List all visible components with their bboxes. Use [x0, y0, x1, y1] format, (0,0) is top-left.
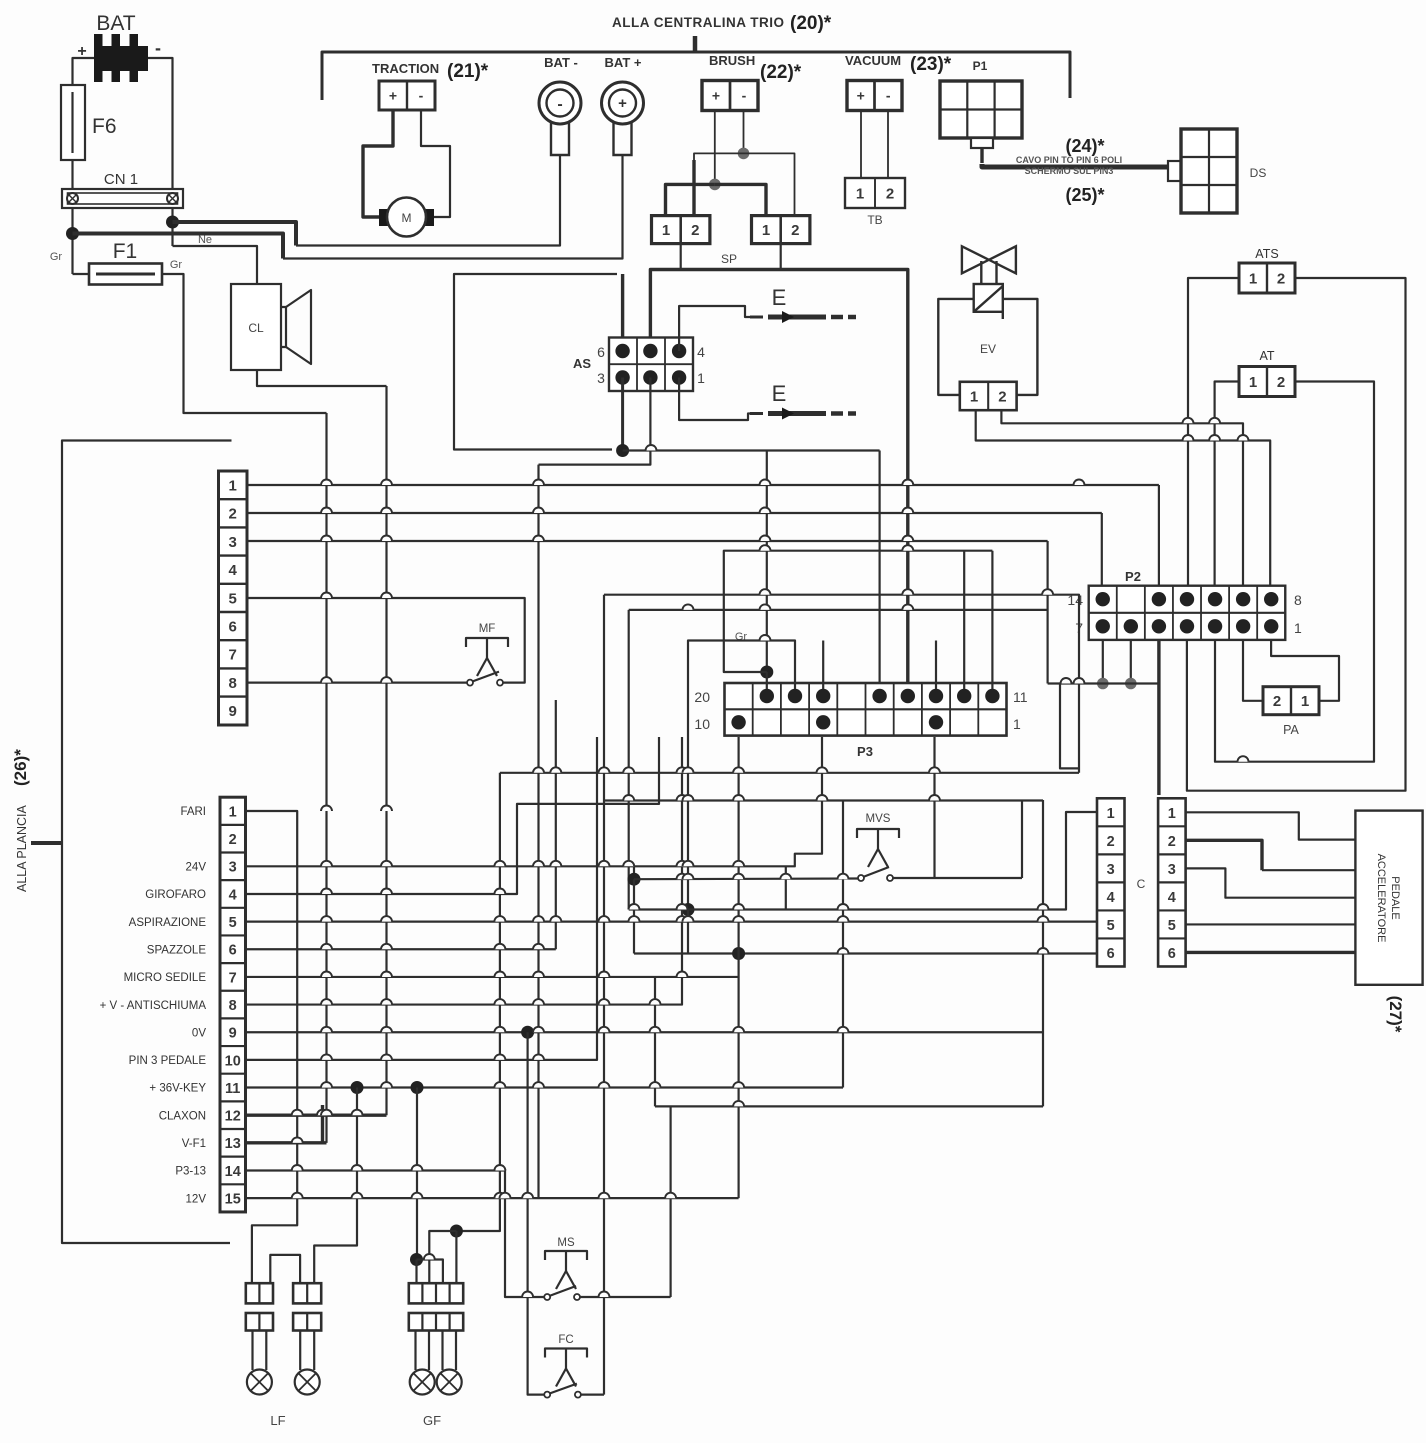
svg-text:(27)*: (27)* [1386, 996, 1405, 1033]
switch MF lever [472, 672, 499, 682]
svg-text:1: 1 [762, 222, 770, 239]
connector P3 [725, 683, 1007, 736]
connector AS pins [615, 344, 629, 358]
svg-text:1: 1 [229, 804, 237, 820]
wire X628 vertical [628, 610, 630, 910]
wire CN9 pin8 to MF [247, 681, 467, 683]
svg-text:8: 8 [229, 675, 237, 692]
wire X1043 vertical [1042, 800, 1044, 1106]
svg-text:4: 4 [1107, 890, 1115, 906]
connector P2 [1089, 586, 1286, 640]
switch FC lever [549, 1384, 577, 1394]
wire PIN3 PEDALE row10 [246, 737, 598, 1060]
node C6 junction [732, 947, 745, 960]
connector P2 top pins [1096, 592, 1110, 606]
wire CN9 pin2 to P2 [247, 512, 1102, 514]
wire BRUSH plus to SP left 1 [666, 184, 715, 215]
connector LF right upper [293, 1283, 321, 1303]
wire P2 pin2 to PA [1243, 640, 1263, 701]
node X688 junction [682, 903, 695, 916]
svg-text:1: 1 [1168, 806, 1176, 822]
svg-text:CN 1: CN 1 [104, 171, 138, 188]
svg-text:Gr: Gr [50, 251, 63, 263]
lamp GF right [441, 1331, 443, 1371]
switch MS lever [549, 1286, 576, 1296]
connector P1 tab [971, 138, 993, 148]
wire CLAXON to V-F1 link [321, 1105, 324, 1143]
wire 12V row15 [246, 1197, 739, 1199]
wire CN1 right down [171, 208, 173, 246]
svg-text:SP: SP [721, 252, 737, 266]
wire Y800 line to MS feeder [604, 799, 1043, 801]
battery BAT symbol [94, 34, 148, 82]
connector EV pins [960, 382, 1017, 410]
svg-text:1: 1 [697, 370, 705, 386]
svg-text:ALLA PLANCIA: ALLA PLANCIA [15, 804, 29, 892]
svg-text:2: 2 [1273, 693, 1281, 710]
wire battery minus to CN1 [148, 58, 173, 189]
svg-text:BAT -: BAT - [544, 55, 578, 70]
svg-text:1: 1 [1249, 374, 1257, 391]
connector PA [1263, 687, 1319, 715]
wire GF branch to cell3 [417, 1260, 443, 1284]
node GF junction A [410, 1253, 423, 1266]
wire X688 to Y953 line [687, 910, 689, 954]
svg-text:F6: F6 [92, 115, 117, 138]
switch FC contacts [544, 1392, 550, 1398]
svg-text:VACUUM: VACUUM [845, 53, 901, 68]
connector AT [1239, 367, 1295, 397]
wire CN9 pin3 to P2 area [247, 540, 1048, 542]
wire bus X2 vertical from CL to CLAXON row [385, 386, 387, 1115]
wire 24V row3 [246, 737, 823, 866]
svg-text:7: 7 [229, 647, 237, 664]
connector SP left [652, 216, 710, 244]
svg-text:SPAZZOLE: SPAZZOLE [147, 944, 207, 956]
wire MS link drop [669, 1106, 671, 1297]
terminal BAT- ring [539, 82, 581, 124]
node 0V junction [521, 1026, 534, 1039]
wire MICRO SEDILE branch to MS [654, 977, 656, 1106]
node GF junction B [450, 1225, 463, 1238]
box SP harness outline [454, 274, 617, 450]
wire BRUSH plus to SP right 1 [715, 184, 766, 215]
svg-text:(21)*: (21)* [447, 61, 489, 82]
svg-text:(20)*: (20)* [790, 13, 832, 34]
wire FC right link [581, 1393, 604, 1395]
wire gray node line [1048, 682, 1159, 684]
wire EV pin1 to P2 [976, 410, 1270, 592]
svg-text:CL: CL [248, 321, 264, 335]
cable P1 to DS [980, 148, 983, 163]
wire node to P3 pins 19 and 15 [623, 449, 880, 451]
svg-text:2: 2 [229, 832, 237, 848]
svg-text:ASPIRAZIONE: ASPIRAZIONE [129, 917, 207, 929]
svg-text:5: 5 [229, 590, 237, 607]
wire 0V row9 [246, 1031, 1044, 1033]
connector C left [1097, 798, 1125, 966]
wire X1047 down to gray node line [1046, 541, 1048, 684]
lamp LF left [251, 1331, 253, 1371]
wire LF bridge [270, 1255, 300, 1283]
wire C right pin1 to pedal [1186, 812, 1356, 839]
wire F6 to CN1 [71, 160, 73, 189]
fuse F6 [61, 85, 85, 160]
wire P3-13 row14 [246, 1169, 506, 1171]
svg-text:ALLA CENTRALINA TRIO: ALLA CENTRALINA TRIO [612, 15, 784, 30]
wire ANTISCHIUMA row8 [246, 737, 683, 1005]
node gray P2 pin6 [1125, 678, 1137, 690]
wire P3 pin13 to MVS [933, 737, 935, 878]
svg-text:24V: 24V [186, 862, 207, 874]
node BRUSH minus junction [738, 148, 750, 160]
svg-text:0V: 0V [192, 1027, 206, 1039]
svg-text:11: 11 [1013, 689, 1028, 705]
node row11 junction LF [351, 1081, 364, 1094]
svg-text:FARI: FARI [180, 806, 206, 818]
connector AS [609, 338, 693, 392]
wire MICRO SEDILE row7 [246, 976, 739, 978]
svg-text:GIROFARO: GIROFARO [145, 889, 206, 901]
frame ALLA PLANCIA box [62, 441, 232, 1244]
wire MVS feed line [634, 877, 858, 880]
connector CN1 pin left [67, 193, 78, 204]
svg-text:12: 12 [225, 1109, 241, 1125]
wire BRUSH minus down [743, 111, 745, 154]
svg-text:(22)*: (22)* [760, 62, 802, 83]
svg-text:F1: F1 [113, 240, 138, 263]
svg-text:6: 6 [1168, 946, 1176, 962]
wire CN9 pin1 to P2 [247, 484, 1159, 486]
wire C right pin6 to pedal [1186, 951, 1356, 954]
svg-text:ACCELERATORE: ACCELERATORE [1375, 854, 1387, 943]
claxon CL horn [281, 307, 286, 347]
wire Gr node to P3 pin19 [766, 672, 768, 689]
svg-text:Gr: Gr [170, 259, 183, 271]
wire P3 pin13 stub [935, 641, 937, 690]
terminal BAT- stem [551, 121, 569, 155]
svg-text:DS: DS [1250, 166, 1267, 180]
wire C pin6 line [634, 952, 1097, 954]
svg-text:2: 2 [886, 185, 894, 202]
connector CN1 pin right [167, 193, 178, 204]
svg-text:+: + [618, 95, 627, 112]
wire P2 pin7 down [1102, 640, 1104, 684]
svg-text:(26)*: (26)* [11, 749, 30, 786]
wire C right pin2 to pedal [1186, 840, 1262, 870]
wire MS right link [580, 1296, 671, 1298]
svg-text:BRUSH: BRUSH [709, 53, 755, 68]
wire BRUSH minus to SP right 2 [744, 153, 795, 215]
wire battery-plus bus to BAT+ terminal [73, 234, 284, 259]
switch MVS lever [863, 867, 889, 877]
svg-text:PIN 3 PEDALE: PIN 3 PEDALE [129, 1055, 207, 1067]
wire FC left feed [528, 1032, 544, 1394]
wire C pin1 route [629, 812, 1097, 910]
svg-text:3: 3 [597, 370, 605, 386]
wire X1060 stub [1060, 684, 1079, 769]
wire down to P3 pin12 [963, 551, 965, 689]
wire MS left feed [505, 1170, 544, 1297]
connector TB [845, 178, 905, 208]
wire Y772 feeder [500, 772, 1079, 774]
wire hop bumps [321, 480, 332, 485]
svg-text:CAVO PIN TO PIN 6 POLI: CAVO PIN TO PIN 6 POLI [1016, 155, 1122, 165]
svg-text:MVS: MVS [866, 813, 891, 825]
wire C right pin3 to pedal [1186, 868, 1356, 897]
svg-text:-: - [886, 88, 891, 104]
wire P2 pin5 down thick [1157, 640, 1160, 795]
wire SP right stub [780, 244, 782, 270]
svg-text:2: 2 [229, 506, 237, 523]
connector BRUSH [702, 81, 758, 111]
svg-text:+ V - ANTISCHIUMA: + V - ANTISCHIUMA [100, 1000, 207, 1012]
wire Gr elbow to P3 pin18 [688, 641, 795, 910]
svg-text:2: 2 [1277, 374, 1285, 391]
svg-text:3: 3 [1168, 862, 1176, 878]
connector DS [1181, 129, 1237, 213]
svg-text:-: - [419, 88, 424, 104]
lamp LF right [299, 1331, 301, 1371]
wire AS pin4 to E upper [679, 306, 750, 351]
svg-text:P1: P1 [973, 59, 988, 73]
svg-text:1: 1 [1107, 806, 1115, 822]
bracket centralina [322, 52, 1070, 100]
claxon CL box [231, 284, 281, 370]
wire GIROFARO row4 [246, 737, 660, 894]
svg-text:-: - [742, 88, 747, 104]
connector ATS [1239, 263, 1295, 293]
connector GF lower [409, 1313, 463, 1331]
node Gr junction [760, 666, 773, 679]
svg-text:EV: EV [980, 342, 996, 356]
fuse F1 [89, 264, 162, 285]
svg-text:C: C [1137, 877, 1146, 891]
svg-text:E: E [772, 285, 787, 310]
svg-text:P2: P2 [1125, 569, 1141, 584]
svg-text:(24)*: (24)* [1065, 136, 1104, 156]
svg-text:+: + [857, 88, 865, 104]
svg-text:-: - [557, 96, 562, 113]
terminal BAT+ ring [602, 82, 644, 124]
switch MVS contacts [858, 875, 864, 881]
svg-text:PEDALE: PEDALE [1389, 876, 1401, 919]
motor M [387, 198, 426, 237]
svg-text:SCHERMO SUL PIN3: SCHERMO SUL PIN3 [1025, 166, 1114, 176]
connector SP right [752, 216, 810, 244]
wire X604 long vertical to FC [603, 595, 605, 1395]
svg-text:MICRO SEDILE: MICRO SEDILE [124, 972, 207, 984]
tick centralina [693, 36, 698, 52]
wire 24V stub to MVS line [633, 866, 635, 879]
svg-text:2: 2 [1168, 834, 1176, 850]
wire FARI row1 to LF [246, 811, 298, 1283]
connector CN1 [62, 189, 183, 208]
svg-text:12V: 12V [186, 1193, 207, 1205]
svg-text:1: 1 [1013, 716, 1021, 732]
svg-text:(23)*: (23)* [910, 54, 952, 75]
switch FC actuator [565, 1349, 567, 1369]
svg-text:PA: PA [1283, 723, 1299, 737]
switch MF actuator [486, 638, 488, 658]
wire BRUSH plus down [714, 111, 716, 185]
svg-text:20: 20 [694, 689, 710, 705]
wire CN9 pin5 to MF [247, 598, 525, 683]
svg-text:7: 7 [229, 970, 237, 986]
wire TRACTION minus to motor [421, 110, 450, 217]
wire MS-FC feeder elbow [604, 595, 1079, 773]
node junction Gr left [66, 227, 79, 240]
connector VACUUM [847, 81, 902, 111]
svg-text:4: 4 [697, 344, 705, 360]
switch MS contacts [544, 1294, 550, 1300]
svg-text:3: 3 [1107, 862, 1115, 878]
wire Gr loop to pins 18 [724, 551, 993, 672]
svg-text:CLAXON: CLAXON [159, 1110, 206, 1122]
svg-text:MS: MS [557, 1237, 575, 1249]
wire CN1 left down [71, 208, 73, 274]
svg-text:6: 6 [597, 344, 605, 360]
svg-text:ATS: ATS [1255, 247, 1278, 261]
svg-text:2: 2 [691, 222, 699, 239]
tick ALLA PLANCIA [31, 841, 62, 845]
svg-text:1: 1 [1249, 270, 1257, 287]
svg-text:-: - [155, 38, 161, 58]
connector LF left upper [246, 1283, 273, 1303]
svg-text:4: 4 [229, 887, 237, 903]
switch MF bracket [466, 638, 508, 647]
wire SPAZZOLE row6 [246, 948, 556, 950]
svg-text:8: 8 [229, 998, 237, 1014]
svg-text:1: 1 [1294, 620, 1302, 636]
switch MVS actuator [877, 829, 879, 849]
svg-text:1: 1 [229, 478, 237, 495]
wire EV pin2 to P2 [1001, 410, 1243, 592]
wire MS link elbow [655, 1105, 1043, 1107]
wire branch down to P3 pin15 [878, 451, 880, 690]
svg-text:9: 9 [229, 703, 237, 720]
svg-text:6: 6 [1107, 946, 1115, 962]
svg-text:+ 36V-KEY: + 36V-KEY [149, 1083, 206, 1095]
box PEDALE ACCELERATORE [1355, 811, 1422, 985]
connector GF upper [409, 1283, 463, 1303]
wire GF branch to cell2 [429, 1231, 456, 1283]
wire P2 pin6 down [1130, 640, 1132, 684]
svg-text:(25)*: (25)* [1065, 185, 1104, 205]
wire V-F1 row13 [246, 1141, 327, 1144]
svg-text:TB: TB [867, 213, 882, 227]
wire GF feed A [416, 1088, 418, 1260]
wire CL bottom to bus X2 [257, 370, 387, 386]
switch MVS bracket [857, 829, 899, 838]
wire SP left stub [680, 244, 682, 270]
lamp GF left [414, 1331, 416, 1371]
valve EV bowtie [962, 246, 1016, 273]
svg-text:1: 1 [662, 222, 670, 239]
svg-text:2: 2 [1277, 270, 1285, 287]
wire X499 drop to GF [456, 773, 500, 1231]
svg-text:13: 13 [225, 1136, 241, 1152]
connector P1 [940, 81, 1022, 138]
connector LF left lower [246, 1313, 273, 1331]
svg-text:5: 5 [229, 915, 237, 931]
svg-text:11: 11 [225, 1081, 240, 1097]
node MVS feed junction [628, 873, 641, 886]
wire branch down to Gr node [766, 451, 768, 673]
node row11 junction GF [411, 1081, 424, 1094]
wire X1022 riser [1021, 801, 1023, 879]
wire CLAXON row12 [246, 1113, 387, 1116]
svg-text:6: 6 [229, 619, 237, 636]
node AS pin3 junction [616, 444, 629, 457]
svg-text:P3-13: P3-13 [175, 1166, 206, 1178]
wire MVS right line [893, 877, 1022, 879]
svg-text:3: 3 [229, 534, 237, 551]
svg-text:10: 10 [225, 1053, 241, 1069]
motor M terminals [379, 209, 390, 226]
svg-text:4: 4 [229, 562, 238, 579]
node gray P2 pin7 [1097, 678, 1109, 690]
svg-text:1: 1 [1301, 693, 1309, 710]
wire P3 pin10 to 12V row [737, 737, 739, 1198]
valve EV stem [981, 261, 996, 284]
connector CN9 column [219, 471, 248, 725]
svg-text:10: 10 [694, 716, 710, 732]
svg-text:V-F1: V-F1 [182, 1138, 206, 1150]
wire 36V-KEY row11 [246, 1086, 844, 1088]
svg-text:GF: GF [423, 1413, 441, 1428]
wire BRUSH minus to SP left 2 [694, 153, 744, 160]
svg-text:LF: LF [270, 1413, 285, 1428]
connector CN15 column [220, 797, 246, 1212]
svg-text:MF: MF [479, 623, 496, 635]
probe E lower [750, 412, 763, 415]
svg-text:14: 14 [225, 1164, 241, 1180]
wire AS pin2 down-left [539, 378, 651, 465]
wire ASPIRAZIONE row5 to C pin5 [246, 921, 1098, 923]
svg-text:9: 9 [229, 1026, 237, 1042]
connector DS tab [1168, 161, 1181, 181]
wire TRACTION plus to motor [363, 110, 393, 217]
wire SP line to AS pin5 and P3 [650, 270, 907, 690]
svg-text:2: 2 [998, 388, 1006, 405]
wire X555 riser [555, 700, 557, 949]
svg-text:2: 2 [791, 222, 799, 239]
svg-text:+: + [389, 88, 397, 104]
connector LF right lower [293, 1313, 321, 1331]
svg-text:M: M [402, 211, 412, 225]
node BRUSH plus junction [709, 179, 721, 191]
svg-text:4: 4 [1168, 890, 1176, 906]
connector C right [1158, 798, 1186, 966]
wire F1 right to bus X1 [162, 274, 327, 413]
wire C1 feeder line [629, 609, 1048, 611]
wire battery-minus bus to BAT- terminal [173, 222, 297, 246]
svg-text:AT: AT [1259, 349, 1274, 363]
svg-text:P3: P3 [857, 744, 873, 759]
wire ATS pin1 to P2 top [1188, 278, 1239, 592]
connector TRACTION [379, 81, 435, 110]
wire Ne to claxon CL [173, 246, 258, 284]
svg-text:1: 1 [856, 185, 864, 202]
svg-text:8: 8 [1294, 592, 1302, 608]
svg-text:3: 3 [229, 860, 237, 876]
wire P2 pin1 to PA [1271, 640, 1339, 701]
svg-text:5: 5 [1107, 918, 1115, 934]
wire VACUUM plus to TB [860, 111, 862, 179]
wire down to P3 pin11 [991, 551, 993, 689]
wire X785 drop [785, 866, 787, 909]
